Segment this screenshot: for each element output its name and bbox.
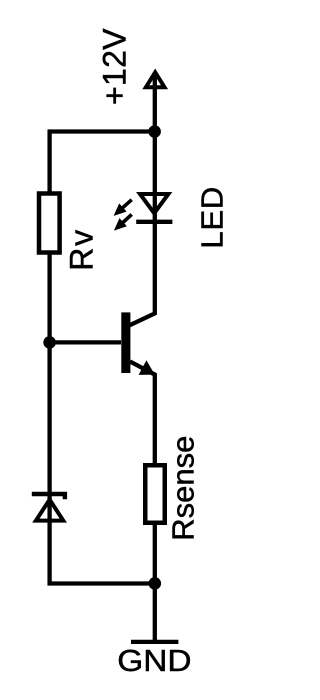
wire: emitter diagonal and down through Rsense to ground bbox=[130, 362, 155, 642]
LED light arrow 2 bbox=[114, 214, 132, 230]
transistor Q1 emitter arrowhead bbox=[139, 360, 155, 375]
wire: top rail and left branch down through zener to bottom rail bbox=[50, 132, 155, 584]
LED D1 triangle bbox=[140, 194, 168, 213]
power symbol +12V arrow bbox=[146, 72, 165, 87]
svg-text:+12V: +12V bbox=[96, 28, 132, 105]
node: top junction bbox=[148, 125, 161, 138]
svg-text:Rsense: Rsense bbox=[166, 436, 201, 541]
node: base junction bbox=[43, 336, 56, 349]
node: bottom junction bbox=[149, 577, 162, 590]
svg-text:LED: LED bbox=[195, 186, 230, 249]
wire: +12V stub down through LED to transistor collector bbox=[130, 76, 155, 325]
ground bar bbox=[131, 640, 178, 644]
LED light arrow 1 bbox=[114, 200, 132, 216]
transistor Q1 base bar bbox=[121, 312, 130, 373]
LED cathode bar bbox=[136, 220, 172, 224]
resistor Rsense bbox=[145, 465, 165, 523]
svg-text:GND: GND bbox=[117, 643, 191, 678]
zener diode cathode bar bbox=[32, 494, 65, 499]
wire: base wire bbox=[50, 340, 121, 344]
svg-text:Rv: Rv bbox=[64, 228, 100, 271]
resistor Rv bbox=[39, 194, 60, 253]
zener diode triangle bbox=[36, 500, 63, 521]
